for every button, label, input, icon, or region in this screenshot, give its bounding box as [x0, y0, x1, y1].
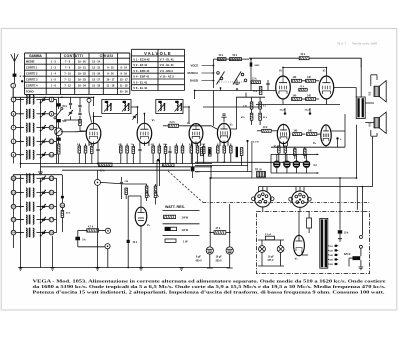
- tube V5 EL41: [276, 76, 291, 99]
- svg-text:WATT. RES.: WATT. RES.: [165, 205, 185, 209]
- resistor 625: [353, 256, 361, 260]
- wire under tubes: [282, 99, 284, 105]
- bus bank2 right: [52, 236, 54, 268]
- wire V1 plate to T1: [94, 117, 102, 124]
- phono jack small: [95, 179, 101, 185]
- output transformer: [356, 97, 365, 119]
- svg-text:8 µF: 8 µF: [196, 256, 201, 259]
- osc coil L8: [26, 202, 27, 211]
- osc trimmer C7: [42, 191, 45, 193]
- wire P1 down: [262, 206, 264, 211]
- svg-text:13 - 18: 13 - 18: [92, 84, 101, 88]
- wire audio mid: [203, 106, 262, 108]
- svg-text:8 - 14: 8 - 14: [120, 66, 127, 70]
- resistor row2 h: [163, 163, 175, 166]
- svg-text:0,1 µF: 0,1 µF: [265, 234, 272, 236]
- resistor 13 k: [299, 88, 307, 91]
- svg-text:CORTE 1: CORTE 1: [26, 66, 38, 70]
- cluster under V4: [217, 146, 220, 153]
- tube V2 EF41: [137, 123, 152, 143]
- cell capacitor 1: [273, 161, 280, 168]
- resistor 140 g2: [307, 133, 317, 136]
- capacitor c-row3: [168, 150, 171, 152]
- svg-text:47 k: 47 k: [216, 227, 221, 230]
- resistor r14: [202, 147, 205, 154]
- wire vert 247: [247, 142, 249, 172]
- coupling blob: [57, 138, 61, 141]
- capacitor c-row2: [138, 148, 141, 150]
- wire V8 to OT: [331, 130, 345, 132]
- cell capacitor 3: [293, 161, 300, 168]
- antenna: [14, 61, 16, 84]
- IF transformer T1: [102, 100, 131, 114]
- svg-text:BASSI: BASSI: [190, 79, 198, 83]
- wire tone top: [214, 58, 250, 60]
- table bands/contacts: [25, 52, 130, 54]
- grid cap V4: [223, 117, 225, 122]
- wire drop b: [372, 137, 374, 187]
- electrolytic 16uF: [226, 247, 233, 254]
- svg-text:11 - 18: 11 - 18: [107, 84, 115, 88]
- wire V6 to line: [360, 58, 362, 67]
- wires plug P1: [258, 187, 260, 193]
- wire row osc 3: [16, 206, 24, 208]
- svg-text:4,7 k: 4,7 k: [88, 226, 94, 229]
- wire T2 to V3: [183, 107, 189, 124]
- svg-text:∗ ∗: ∗ ∗: [19, 75, 25, 78]
- svg-text:11 - 18: 11 - 18: [120, 84, 128, 88]
- bus AVC 1: [21, 163, 213, 165]
- bus bank1 mid: [40, 100, 42, 173]
- resistor 4,7 k fono: [87, 229, 99, 232]
- svg-text:CORTE 4: CORTE 4: [26, 84, 38, 88]
- resistor r8: [158, 146, 161, 153]
- wire plate V6 to OT: [334, 87, 357, 89]
- svg-text:Potenza d’uscita 15 watt indis: Potenza d’uscita 15 watt indistorti. 2 a…: [33, 290, 385, 295]
- ground psu: [359, 266, 364, 268]
- ground g5: [179, 267, 184, 269]
- speaker 1: [374, 86, 379, 96]
- power unit boundary: [257, 211, 370, 273]
- svg-text:7 - 8: 7 - 8: [65, 60, 71, 64]
- wire vert 252: [251, 141, 253, 178]
- wire 2,2k to V4: [184, 126, 218, 130]
- tuning capacitor circle: [55, 128, 63, 136]
- svg-text:350 V: 350 V: [216, 259, 223, 262]
- heater bus top: [271, 153, 319, 155]
- arrow bassi: [202, 80, 215, 82]
- terminal 12: [49, 152, 54, 157]
- terminal 6: [11, 152, 16, 157]
- ground g3: [50, 267, 55, 269]
- svg-text:7 - 12: 7 - 12: [64, 84, 71, 88]
- capacitor c-row1: [96, 148, 99, 150]
- svg-text:V₁: V₁: [79, 121, 82, 125]
- osc coil L6: [26, 174, 27, 183]
- svg-text:15 - 17: 15 - 17: [120, 78, 129, 82]
- junction dots: [61, 96, 63, 98]
- wire drop 230: [229, 204, 231, 247]
- wire row osc 5: [16, 232, 24, 234]
- transformer taps: [328, 245, 329, 247]
- ground mid: [95, 267, 100, 269]
- svg-text:450 V: 450 V: [196, 259, 203, 262]
- wire osc: [62, 96, 94, 98]
- svg-text:9 - 16: 9 - 16: [107, 72, 114, 76]
- resistor r6: [132, 147, 135, 154]
- tube V4 EBF41: [217, 123, 230, 142]
- wire top of bank2: [13, 174, 62, 176]
- resistor mixer: [57, 144, 60, 154]
- antenna coil L3: [26, 123, 27, 132]
- svg-text:10 k: 10 k: [219, 55, 224, 57]
- osc coil L7: [26, 188, 27, 197]
- tone switch arm 1: [217, 72, 225, 85]
- wire row 5: [16, 140, 24, 142]
- svg-text:V 1 - ECH 42: V 1 - ECH 42: [133, 57, 150, 61]
- pins V3: [191, 141, 193, 146]
- capacitor 10uF a: [284, 112, 287, 115]
- antenna coil L1: [26, 95, 27, 104]
- speaker bracket: [370, 75, 372, 86]
- osc trimmer C9: [42, 218, 45, 220]
- bus bank2 mid: [40, 178, 42, 267]
- shield cap bar: [236, 147, 238, 158]
- terminal 4: [11, 125, 16, 130]
- antenna coil L5: [26, 150, 27, 159]
- svg-text:1 W: 1 W: [183, 241, 188, 244]
- terminal 17: [49, 217, 54, 222]
- resistor 10 k tone: [218, 58, 227, 61]
- resistor r9: [164, 147, 167, 154]
- capacitor 5000 tone: [250, 62, 253, 66]
- svg-text:13 - 17: 13 - 17: [92, 78, 101, 82]
- wire V2 plate to T2: [143, 113, 145, 116]
- capacitor 10uF b: [309, 112, 312, 115]
- terminal 1: [11, 83, 16, 88]
- wire B+ mid: [195, 90, 276, 92]
- wire row 4: [16, 127, 24, 129]
- resistor r3: [91, 147, 94, 154]
- antenna coil L2: [26, 109, 27, 118]
- bus output cathodes: [271, 146, 345, 148]
- trimmer C1: [42, 98, 45, 100]
- svg-text:V₁₀: V₁₀: [295, 257, 299, 261]
- svg-text:CORTE 3: CORTE 3: [26, 78, 38, 82]
- grounds electrolytics: [209, 254, 211, 267]
- resistor r5: [126, 146, 129, 153]
- svg-text:V 8 - EL 41: V 8 - EL 41: [160, 63, 174, 67]
- svg-text:0,1 M: 0,1 M: [253, 141, 259, 143]
- resistor mixer b: [79, 120, 82, 126]
- terminal 3: [11, 112, 16, 117]
- grid cap V1 top: [87, 98, 91, 102]
- terminal 16: [49, 204, 54, 209]
- resistor 10 k psu: [338, 230, 342, 233]
- wire V9 up: [140, 203, 142, 209]
- bus under V4 V7: [195, 161, 310, 163]
- arrow musica: [202, 72, 215, 74]
- resistor cluster v3 extra: [208, 148, 211, 157]
- wire tone right: [250, 59, 252, 62]
- svg-text:9 - 16: 9 - 16: [120, 72, 127, 76]
- tube V8 EL41: [321, 125, 331, 146]
- chain left terminals bank2: [13, 181, 15, 191]
- tube V6 EL41: [319, 76, 334, 99]
- svg-text:VOCE: VOCE: [191, 63, 199, 67]
- fono terminal 2: [105, 244, 110, 249]
- wire OT top: [360, 58, 362, 97]
- resistor 140 a: [292, 79, 302, 82]
- svg-text:50 k: 50 k: [62, 106, 67, 108]
- svg-text:V 4 - EBF 41: V 4 - EBF 41: [133, 75, 149, 79]
- wire fono down: [107, 249, 109, 268]
- svg-text:1/4 W: 1/4 W: [182, 217, 189, 220]
- svg-text:22 k: 22 k: [301, 54, 306, 56]
- wire V9 down: [140, 225, 142, 267]
- svg-text:12 k: 12 k: [252, 79, 257, 81]
- cable connector P2: [292, 191, 308, 207]
- resistor 140 c: [292, 98, 302, 101]
- svg-text:19 - 22: 19 - 22: [78, 72, 87, 76]
- capacitor 730: [120, 181, 123, 183]
- terminal 5: [11, 139, 16, 144]
- padder capacitor 500: [56, 119, 60, 122]
- wire osc grid: [80, 130, 86, 132]
- mains lead: [356, 187, 358, 210]
- terminal 11: [49, 139, 54, 144]
- wire mixer h: [64, 119, 80, 121]
- svg-text:V₉: V₉: [147, 223, 150, 227]
- osc feed components: [61, 196, 64, 199]
- wire row osc 4: [16, 219, 24, 221]
- mains tubular capacitor: [265, 236, 274, 240]
- wire row 6: [16, 154, 24, 156]
- resistor 50 k tone: [230, 58, 242, 61]
- svg-text:V 7 - EL 41: V 7 - EL 41: [160, 57, 174, 61]
- svg-text:VALVOLE: VALVOLE: [144, 51, 172, 56]
- bus bank1 right: [56, 100, 58, 164]
- pins V2: [139, 142, 141, 147]
- terminal 14: [49, 176, 54, 181]
- svg-text:125 V: 125 V: [267, 260, 273, 262]
- wire volume: [128, 195, 141, 197]
- band switch arm: [56, 110, 62, 118]
- resistor 140 d: [306, 98, 316, 101]
- trimmer IF1: [133, 115, 136, 117]
- speaker 2: [374, 118, 379, 128]
- chain left terminals bank1: [13, 102, 15, 112]
- wire tone left: [213, 59, 215, 88]
- resistor r2: [84, 146, 87, 153]
- terminal 9: [49, 112, 54, 117]
- resistor stack a: [250, 102, 253, 109]
- svg-text:6 Ω: 6 Ω: [370, 123, 372, 127]
- resistor r4: [120, 146, 123, 153]
- resistor cluster mid: [125, 188, 128, 195]
- fono terminal 1: [105, 228, 110, 233]
- osc trimmer C10: [42, 231, 45, 233]
- resistor 10 k driver: [262, 129, 271, 132]
- svg-text:19 - 24: 19 - 24: [78, 84, 87, 88]
- osc coil L10: [26, 228, 27, 237]
- svg-text:V 9 - EM 4: V 9 - EM 4: [160, 69, 173, 73]
- tube V1 ECH42: [86, 123, 101, 143]
- wire V10: [298, 211, 300, 235]
- tube V9 EM4: [135, 207, 147, 226]
- capacitor 0,1 dot: [246, 140, 248, 142]
- capacitor 50k blob: [56, 103, 61, 106]
- resistor stack b: [250, 113, 253, 120]
- svg-text:13 - 16: 13 - 16: [92, 72, 101, 76]
- svg-text:56 d. 7: 56 d. 7: [337, 42, 347, 46]
- svg-text:2,2 k: 2,2 k: [170, 122, 176, 124]
- svg-text:TR. M: TR. M: [255, 169, 262, 172]
- resistor 4,7 k: [99, 163, 113, 166]
- potentiometer 0,5 M: [154, 186, 157, 198]
- caption text: [33, 278, 386, 294]
- bus bank2 left: [20, 175, 22, 268]
- svg-text:VEGA - Mod. 1053. Alimentazion: VEGA - Mod. 1053. Alimentazione in corre…: [33, 278, 386, 283]
- fuse: [307, 218, 312, 228]
- svg-text:GAMMA: GAMMA: [29, 54, 42, 58]
- wire drop 212: [209, 231, 211, 247]
- cell capacitor 2: [283, 161, 290, 168]
- wire fuse to transformer: [305, 217, 320, 219]
- table valvole: [132, 48, 185, 50]
- wire fono: [78, 229, 87, 231]
- svg-text:50 k: 50 k: [233, 55, 238, 57]
- svg-text:V 3 - EBC 41: V 3 - EBC 41: [133, 69, 150, 73]
- wire row 2: [16, 99, 24, 101]
- shielded line: [157, 159, 160, 162]
- svg-text:5 Ω: 5 Ω: [370, 92, 372, 96]
- arrow voce: [202, 64, 215, 66]
- svg-text:5000: 5000: [255, 65, 261, 67]
- svg-text:1 - 5: 1 - 5: [51, 78, 57, 82]
- trimmer C5: [42, 153, 45, 155]
- svg-text:CORTE 2: CORTE 2: [26, 72, 38, 76]
- wire drop to switch: [361, 187, 363, 236]
- svg-text:13 - 15: 13 - 15: [92, 66, 101, 70]
- svg-text:25 - 26: 25 - 26: [120, 90, 129, 94]
- cluster left of V4: [200, 148, 203, 156]
- mains switch: [359, 236, 362, 239]
- ground tick mid: [234, 82, 240, 84]
- wire row 3: [16, 113, 24, 115]
- bus audio 1: [195, 165, 248, 167]
- bus AVC 2: [41, 166, 213, 168]
- svg-text:19 - 21: 19 - 21: [78, 66, 87, 70]
- wire padder: [58, 97, 60, 103]
- tube V7 EL41: [277, 124, 289, 143]
- trimmer C2: [42, 112, 45, 114]
- cathode resistors V7 V8: [294, 149, 297, 156]
- svg-text:V 10 - AZ 2: V 10 - AZ 2: [160, 75, 174, 79]
- resistor 140 b: [306, 79, 316, 82]
- wire P2 down: [299, 207, 301, 212]
- antenna coupling blob: [13, 74, 17, 77]
- svg-text:2 M: 2 M: [201, 144, 205, 146]
- terminal 18: [49, 230, 54, 235]
- ground bus: [21, 267, 230, 269]
- wire OT to speakers: [365, 102, 374, 104]
- electrolytic 8uF: [206, 247, 213, 254]
- svg-text:10 k: 10 k: [263, 127, 268, 129]
- wire row osc 1: [16, 177, 24, 179]
- resistor 47 k: [214, 231, 226, 235]
- wire T1 to V2 grid: [131, 107, 138, 124]
- terminal 23: [11, 217, 16, 222]
- cluster under V7: [278, 146, 281, 153]
- svg-text:9 - 15: 9 - 15: [107, 66, 114, 70]
- resistor 140 g1: [293, 133, 302, 136]
- capacitor mixer b: [78, 112, 81, 114]
- svg-text:1/2 W: 1/2 W: [182, 229, 189, 232]
- wire V4 plate up: [231, 97, 246, 129]
- svg-text:FONO: FONO: [26, 90, 34, 94]
- resistor r13: [196, 146, 199, 153]
- wire drop to 10k: [339, 178, 341, 230]
- wire row osc 2: [16, 192, 24, 194]
- svg-text:1 - 4: 1 - 4: [51, 72, 57, 76]
- resistor 10 k vert: [259, 87, 262, 95]
- wire grid V1: [61, 131, 75, 133]
- ground bank1: [38, 171, 43, 173]
- antenna coil L4: [26, 137, 27, 146]
- capacitor grid V1: [78, 104, 81, 106]
- vertical mid drop: [210, 165, 212, 178]
- terminal 21: [11, 190, 16, 195]
- wire feedback top: [249, 57, 299, 59]
- pins V1: [88, 142, 90, 147]
- terminal 8: [49, 97, 54, 102]
- osc trimmer C6: [42, 177, 45, 179]
- terminal 10: [49, 125, 54, 130]
- terminal 22: [11, 204, 16, 209]
- osc coil L9: [26, 215, 27, 224]
- cell capacitor 4: [303, 161, 310, 168]
- svg-text:1 - 3: 1 - 3: [51, 66, 57, 70]
- note dot corte3: [21, 80, 23, 82]
- svg-text:625 Ω: 625 Ω: [344, 254, 350, 256]
- rectifier V10: [294, 235, 305, 255]
- pilot lamp 2: [277, 246, 284, 253]
- pins V4: [219, 141, 221, 147]
- svg-text:10 - 17: 10 - 17: [106, 78, 115, 82]
- mains transformer: [320, 218, 328, 268]
- terminal 2: [11, 97, 16, 102]
- potentiometer 1 M: [145, 186, 148, 198]
- trimmer C3: [42, 126, 45, 128]
- resistor r12: [190, 146, 193, 153]
- wire top of bank1: [13, 96, 62, 98]
- tone link dotted: [217, 81, 247, 83]
- svg-text:V 6 - EL 41: V 6 - EL 41: [133, 86, 147, 90]
- capacitor 52 k block: [191, 167, 195, 172]
- wire bus y178: [211, 177, 357, 179]
- resistor r11: [181, 146, 184, 153]
- svg-text:Tavole radio 1948: Tavole radio 1948: [352, 42, 377, 46]
- trimmer mixer: [69, 111, 72, 113]
- svg-text:16 µF: 16 µF: [268, 256, 275, 258]
- heater bus bottom: [271, 172, 319, 174]
- dashed link: [168, 171, 203, 203]
- svg-text:V 2 - EF 41: V 2 - EF 41: [133, 63, 147, 67]
- capacitor mixer a: [69, 102, 72, 104]
- resistor 22 k: [299, 57, 309, 60]
- svg-text:7 - 11: 7 - 11: [64, 78, 71, 82]
